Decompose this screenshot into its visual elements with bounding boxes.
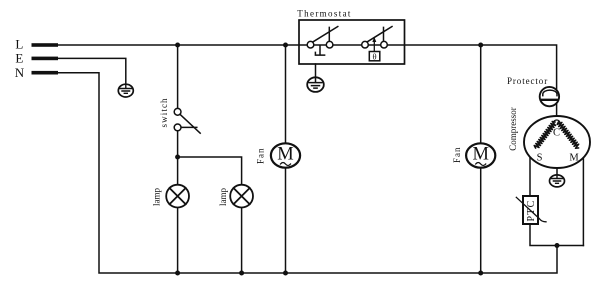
svg-text:PTC: PTC	[526, 200, 537, 222]
svg-text:M: M	[569, 153, 579, 164]
svg-text:lamp: lamp	[218, 188, 228, 206]
svg-text:L: L	[15, 37, 23, 52]
svg-text:C: C	[553, 128, 560, 139]
svg-text:θ: θ	[373, 51, 377, 61]
svg-text:lamp: lamp	[152, 188, 162, 206]
svg-text:Compressor: Compressor	[508, 107, 518, 151]
svg-text:N: N	[15, 65, 25, 80]
svg-text:Fan: Fan	[255, 148, 265, 165]
svg-text:Thermostat: Thermostat	[297, 9, 352, 19]
svg-text:switch: switch	[159, 97, 169, 127]
svg-text:S: S	[537, 153, 543, 164]
svg-text:M: M	[472, 145, 488, 165]
svg-text:E: E	[15, 51, 23, 66]
svg-text:M: M	[277, 145, 293, 165]
svg-text:Protector: Protector	[507, 76, 548, 86]
svg-text:Fan: Fan	[452, 147, 462, 164]
